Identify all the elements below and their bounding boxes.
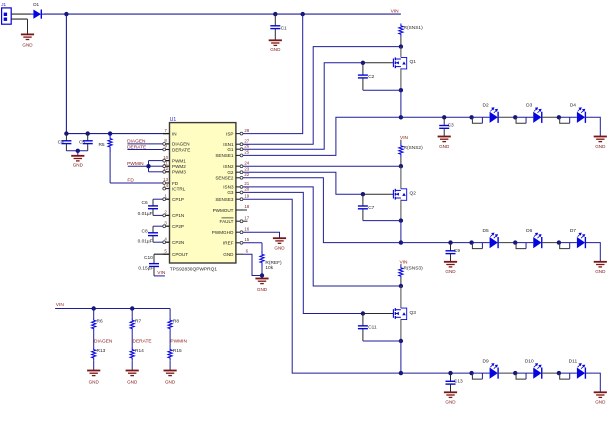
wire to ISN junction [400,278,402,286]
svg-text:D9: D9 [483,359,489,365]
wire C2 to source [363,89,401,91]
svg-text:D11: D11 [569,359,578,365]
capacitor C9 [446,243,456,262]
svg-text:8: 8 [164,138,167,143]
junction source Q3 [399,339,403,343]
wire IREF [243,242,262,244]
junction VIN/IN [64,12,68,16]
svg-text:ICTRL: ICTRL [172,186,186,191]
svg-text:C4: C4 [58,140,64,146]
wire LED rail [401,372,472,374]
ground LED row [594,392,607,397]
wire SENSE2 [243,178,401,243]
wire ISN3 [243,187,401,286]
svg-text:6: 6 [246,248,249,253]
capacitor C6 [148,199,158,215]
svg-text:R(SNS1): R(SNS1) [404,25,424,31]
ground PWMGHO [273,238,286,243]
junction C4/C5 [76,149,80,153]
wire drain [400,286,402,308]
junction IN/R5 [108,131,112,135]
U1 pin 11 PWM2 [163,165,170,167]
wire DIAGEN net [93,331,95,347]
svg-text:GND: GND [445,269,456,274]
svg-text:CP2P: CP2P [172,224,184,229]
ground C1 [269,40,282,45]
wire to R7 [131,309,133,318]
svg-text:PWM3: PWM3 [172,170,186,175]
svg-text:FAULT: FAULT [220,219,234,224]
wire G1 gate segment [363,62,394,64]
junction VIN/C1 [273,12,277,16]
svg-text:15: 15 [244,237,249,242]
svg-text:VIN: VIN [56,302,65,308]
wire VIN stub [400,264,402,266]
wire to ground [93,360,95,370]
wire LED link [498,372,515,374]
svg-text:28: 28 [244,128,249,133]
capacitor C5 [83,134,93,151]
svg-text:GND: GND [445,400,456,405]
wire to ground [169,360,171,370]
svg-text:ISN2: ISN2 [223,164,234,169]
junction D5 anode net [469,240,473,244]
svg-text:ISP: ISP [226,131,233,136]
junction D2 anode net [469,115,473,119]
wire IN to U1 pin7 [66,133,162,135]
svg-text:C8: C8 [142,229,148,235]
wire R5 to FD [109,152,111,183]
U1 pin 8 DIAGEN [163,143,170,145]
svg-text:G1: G1 [227,147,234,152]
svg-text:U1: U1 [170,117,177,123]
svg-text:J1: J1 [1,2,6,7]
wire VIN stub [400,140,402,143]
junction D4 anode net [557,115,561,119]
junction R7 [130,306,134,310]
wire DERATE net [131,331,133,347]
wire PWMGHO to ground [243,232,280,238]
wire CP1P [153,198,163,200]
capacitor C10 [149,254,159,276]
capacitor C8 [148,226,158,242]
svg-text:ISN3: ISN3 [223,185,234,190]
wire G2 [243,172,363,194]
wire to ISN junction [400,157,402,166]
junction D10 anode net [513,371,517,375]
ground R(REF) [255,279,268,284]
wire jumper loop D5 [472,243,482,249]
wire jumper loop D9 [472,373,482,379]
U1 pin 19 SENSE3 [236,198,243,200]
svg-text:C9: C9 [454,248,460,254]
wire R(REF) to ground [261,266,263,276]
resistor R8 [168,318,172,331]
U1 pin 14 ICTRL [163,188,170,190]
wire DIAGEN [127,143,162,145]
svg-text:7: 7 [164,128,167,133]
wire SENSE1 [243,117,401,155]
wire jumper loop D4 [560,117,570,123]
svg-text:VIN: VIN [157,270,166,276]
svg-text:Q3: Q3 [410,310,417,316]
wire PWMIN net [169,331,171,347]
resistor R13 [92,347,96,360]
svg-text:PWMOUT: PWMOUT [213,208,234,213]
svg-text:GND: GND [22,43,33,48]
wire jumper loop D3 [516,117,526,123]
svg-text:DIAGEN: DIAGEN [94,338,113,344]
svg-text:R(SNS2): R(SNS2) [404,145,424,151]
U1 pin 3 CP2P [163,225,170,227]
capacitor C7 [358,194,368,220]
svg-text:VIN: VIN [391,8,400,14]
wire G2 gate segment [363,193,394,195]
svg-text:GND: GND [595,269,606,274]
U1 pin 17 FAULT [236,220,243,222]
LED D7 [559,242,577,244]
svg-text:GND: GND [165,380,176,385]
ground C13 [444,392,457,397]
svg-text:C1: C1 [281,25,287,31]
stub FAULT [243,220,248,222]
svg-text:SENSE2: SENSE2 [215,176,234,181]
wire to ISN junction [400,37,402,47]
junction IN/C4 [64,131,68,135]
LED D2 [472,116,490,118]
svg-text:10k: 10k [265,265,273,271]
svg-text:C6: C6 [142,200,148,206]
capacitor C4 [61,134,71,151]
svg-text:GND: GND [274,245,285,250]
wire C7 to source [363,220,401,222]
junction D9 anode net [469,371,473,375]
svg-text:GND: GND [89,380,100,385]
wire to R6 [93,309,95,318]
capacitor C1 [270,14,280,40]
junction D3 anode net [513,115,517,119]
wire to PWM1 [149,160,163,162]
wire to PWM2 [149,165,163,167]
junction gate Q3 [361,311,365,315]
ground J1 [21,34,34,39]
svg-text:SENSE3: SENSE3 [215,197,234,202]
svg-text:C5: C5 [79,140,85,146]
wire LED link [542,372,559,374]
LED D5 [472,242,490,244]
svg-text:SENSE1: SENSE1 [215,153,234,158]
junction IN/C5 [86,131,90,135]
wire CPOUT [154,253,170,255]
svg-text:D1: D1 [33,2,39,7]
transistor Q2 [393,189,406,201]
junction D6 anode net [513,240,517,244]
svg-text:G2: G2 [227,170,234,175]
svg-text:FD: FD [127,178,134,184]
wire LED rail [401,116,472,118]
U1 pin 27 ISN1 [236,143,243,145]
junction gate Q1 [361,61,365,65]
resistor R15 [168,347,172,360]
svg-text:0.15µF: 0.15µF [138,265,153,271]
wire PWMIN [128,165,149,167]
U1 pin 6 GND [236,253,243,255]
svg-text:10: 10 [163,155,168,160]
resistor R(SNS2) [399,143,403,157]
wire C10 to VIN [154,275,165,277]
U1 pin 16 PWMGHO [236,231,243,233]
capacitor C2 [358,63,368,90]
svg-text:PWM2: PWM2 [172,164,186,169]
svg-text:1: 1 [164,193,167,198]
wire ISN1 [243,47,401,145]
svg-text:DERATE: DERATE [133,338,152,344]
svg-text:D3: D3 [526,103,532,109]
svg-text:G3: G3 [227,190,234,195]
wire rail end to ground [585,373,600,392]
ground R13 [87,371,100,376]
U1 pin 15 IREF [236,242,243,244]
wire C4-C5 join [66,150,87,152]
junction PWMIN [146,164,150,168]
svg-text:GND: GND [127,380,138,385]
svg-text:R6: R6 [97,319,103,325]
svg-text:C2: C2 [368,74,374,80]
wire source [400,200,402,221]
svg-text:PWMGHO: PWMGHO [212,230,234,235]
wire VIN bottom rail [55,308,170,310]
resistor R6 [92,318,96,331]
svg-text:IREF: IREF [223,241,234,246]
wire GND pin [243,254,262,275]
U1 pin 5 CPOUT [163,253,170,255]
svg-text:GND: GND [439,144,450,149]
junction IREF gnd [260,273,264,277]
wire CP2P [153,225,163,227]
U1 pin 25 SENSE1 [236,154,243,156]
junction D11 anode net [557,371,561,375]
svg-text:CP2N: CP2N [172,240,184,245]
wire G1 [243,63,363,149]
svg-text:R7: R7 [135,319,141,325]
U1 pin 9 DERATE [163,149,170,151]
ground C3 [438,137,451,142]
svg-text:C13: C13 [454,378,463,384]
U1 pin 24 ISN2 [236,165,243,167]
svg-text:DIAGEN: DIAGEN [127,139,146,145]
diode D1 [31,10,44,19]
svg-text:R8: R8 [173,319,179,325]
svg-text:0.01µF: 0.01µF [138,211,153,217]
svg-text:24: 24 [244,160,249,165]
junction C9 [448,240,452,244]
svg-text:R13: R13 [97,348,106,354]
svg-text:Q2: Q2 [410,191,417,197]
transistor Q3 [393,308,406,320]
svg-text:R5: R5 [98,142,104,148]
svg-text:FD: FD [172,181,179,186]
wire to ground [27,19,29,34]
transistor Q1 [393,57,406,69]
wire drain [400,47,402,58]
wire to LED rail [400,221,402,243]
wire SENSE3 [243,199,401,373]
svg-text:3: 3 [164,220,167,225]
wire CP2N [153,241,163,243]
svg-text:19: 19 [244,193,249,198]
stub PWMOUT [243,209,247,211]
svg-text:4: 4 [164,236,167,241]
resistor R(SNS3) [399,266,403,278]
resistor R5 [108,134,112,152]
wire C11 to source [363,340,401,342]
junction ISN1 [399,44,403,48]
svg-text:21: 21 [244,181,249,186]
svg-text:GND: GND [595,400,606,405]
U1 pin 10 PWM1 [163,160,170,162]
wire jumper loop D7 [560,243,570,249]
svg-text:0.01µF: 0.01µF [138,239,153,245]
U1 pin 26 G1 [236,148,243,150]
svg-text:CPOUT: CPOUT [172,252,188,257]
wire ISP to VIN [243,14,303,134]
svg-text:13: 13 [163,177,168,182]
junction SENSE1 [399,115,403,119]
junction SENSE2 [399,240,403,244]
junction D7 anode net [557,240,561,244]
wire J1 pin1 to D1 [11,13,31,15]
wire to ground [77,151,79,156]
LED D11 [559,372,577,374]
svg-text:GND: GND [223,252,234,257]
junction source Q1 [399,88,403,92]
svg-text:C11: C11 [368,325,377,331]
ground R14 [126,371,139,376]
wire LED link [542,116,559,118]
svg-text:D2: D2 [483,103,489,109]
junction C13 [448,371,452,375]
capacitor C3 [439,117,449,136]
wire jumper loop D11 [560,373,570,379]
connector J1 [2,8,12,24]
junction VIN/ISP [301,12,305,16]
wire CP1N [153,214,163,216]
svg-text:IN: IN [172,131,177,136]
junction ISN2 [399,164,403,168]
ground C4 C5 [71,156,84,161]
svg-text:PWMIN: PWMIN [127,161,144,167]
wire G3 gate segment [363,313,394,315]
wire ISN2 [243,165,401,167]
svg-text:CP1P: CP1P [172,197,184,202]
svg-text:5: 5 [164,248,167,253]
wire drain [400,166,402,189]
U1 pin 1 CP1P [163,198,170,200]
svg-text:GND: GND [73,162,84,167]
svg-text:D4: D4 [570,103,576,109]
junction source Q2 [399,218,403,222]
svg-text:23: 23 [244,166,249,171]
wire G3 [243,192,363,313]
U1 pin 7 IN [163,133,170,135]
svg-text:2: 2 [164,210,167,215]
LED D3 [515,116,533,118]
svg-text:22: 22 [244,172,249,177]
wire to LED rail [400,90,402,117]
wire source [400,319,402,341]
wire rail end to ground [585,243,600,262]
wire LED link [498,242,515,244]
wire DERATE [127,149,162,151]
junction SENSE3 [399,371,403,375]
LED D4 [559,116,577,118]
svg-text:C3: C3 [448,123,454,129]
junction gate Q2 [361,192,365,196]
svg-text:25: 25 [244,150,249,155]
junction R6 [92,306,96,310]
LED D10 [515,372,533,374]
wire source [400,68,402,90]
U1 pin 2 CP1N [163,214,170,216]
svg-text:C7: C7 [368,205,374,211]
wire LED link [542,242,559,244]
wire jumper loop D6 [516,243,526,249]
svg-text:DERATE: DERATE [127,144,146,150]
wire FD [110,182,163,184]
op-amp U1 TPS92830-Q1 [170,123,236,263]
U1 pin 28 ISP [236,133,243,135]
U1 pin 12 PWM3 [163,171,170,173]
resistor R7 [130,318,134,331]
U1 pin 18 PWMOUT [236,209,243,211]
svg-text:PWM1: PWM1 [172,158,186,163]
svg-text:R(REF): R(REF) [265,260,282,266]
ground LED row [594,137,607,142]
wire rail corner down [169,309,171,318]
wire LED link [498,116,515,118]
svg-text:11: 11 [163,160,168,165]
wire jumper loop D2 [472,117,482,123]
svg-text:R(SNS3): R(SNS3) [404,266,424,272]
svg-text:GND: GND [270,47,281,52]
U1 pin 4 CP2N [163,241,170,243]
U1 pin 13 FD [163,182,170,184]
wire rail end to ground [585,117,600,136]
svg-text:18: 18 [244,204,249,209]
wire jumper loop D10 [516,373,526,379]
svg-text:12: 12 [163,166,168,171]
wire to LED rail [400,341,402,373]
svg-text:TPS92830QPWPRQ1: TPS92830QPWPRQ1 [170,266,218,272]
U1 pin 23 G2 [236,171,243,173]
svg-text:D6: D6 [526,228,532,234]
svg-text:14: 14 [163,183,168,188]
ground C9 [444,262,457,267]
junction ISN3 [399,284,403,288]
svg-text:C10: C10 [144,255,153,261]
svg-text:GND: GND [595,144,606,149]
resistor R(SNS1) [399,24,403,37]
wire J1 pin2 [11,18,27,20]
capacitor C13 [446,373,456,392]
svg-text:D10: D10 [525,359,534,365]
U1 pin 20 G3 [236,191,243,193]
svg-text:DIAGEN: DIAGEN [172,142,190,147]
svg-text:16: 16 [244,226,249,231]
wire IN vertical [65,14,67,134]
U1 pin 22 SENSE2 [236,177,243,179]
resistor R(REF) [260,251,264,266]
